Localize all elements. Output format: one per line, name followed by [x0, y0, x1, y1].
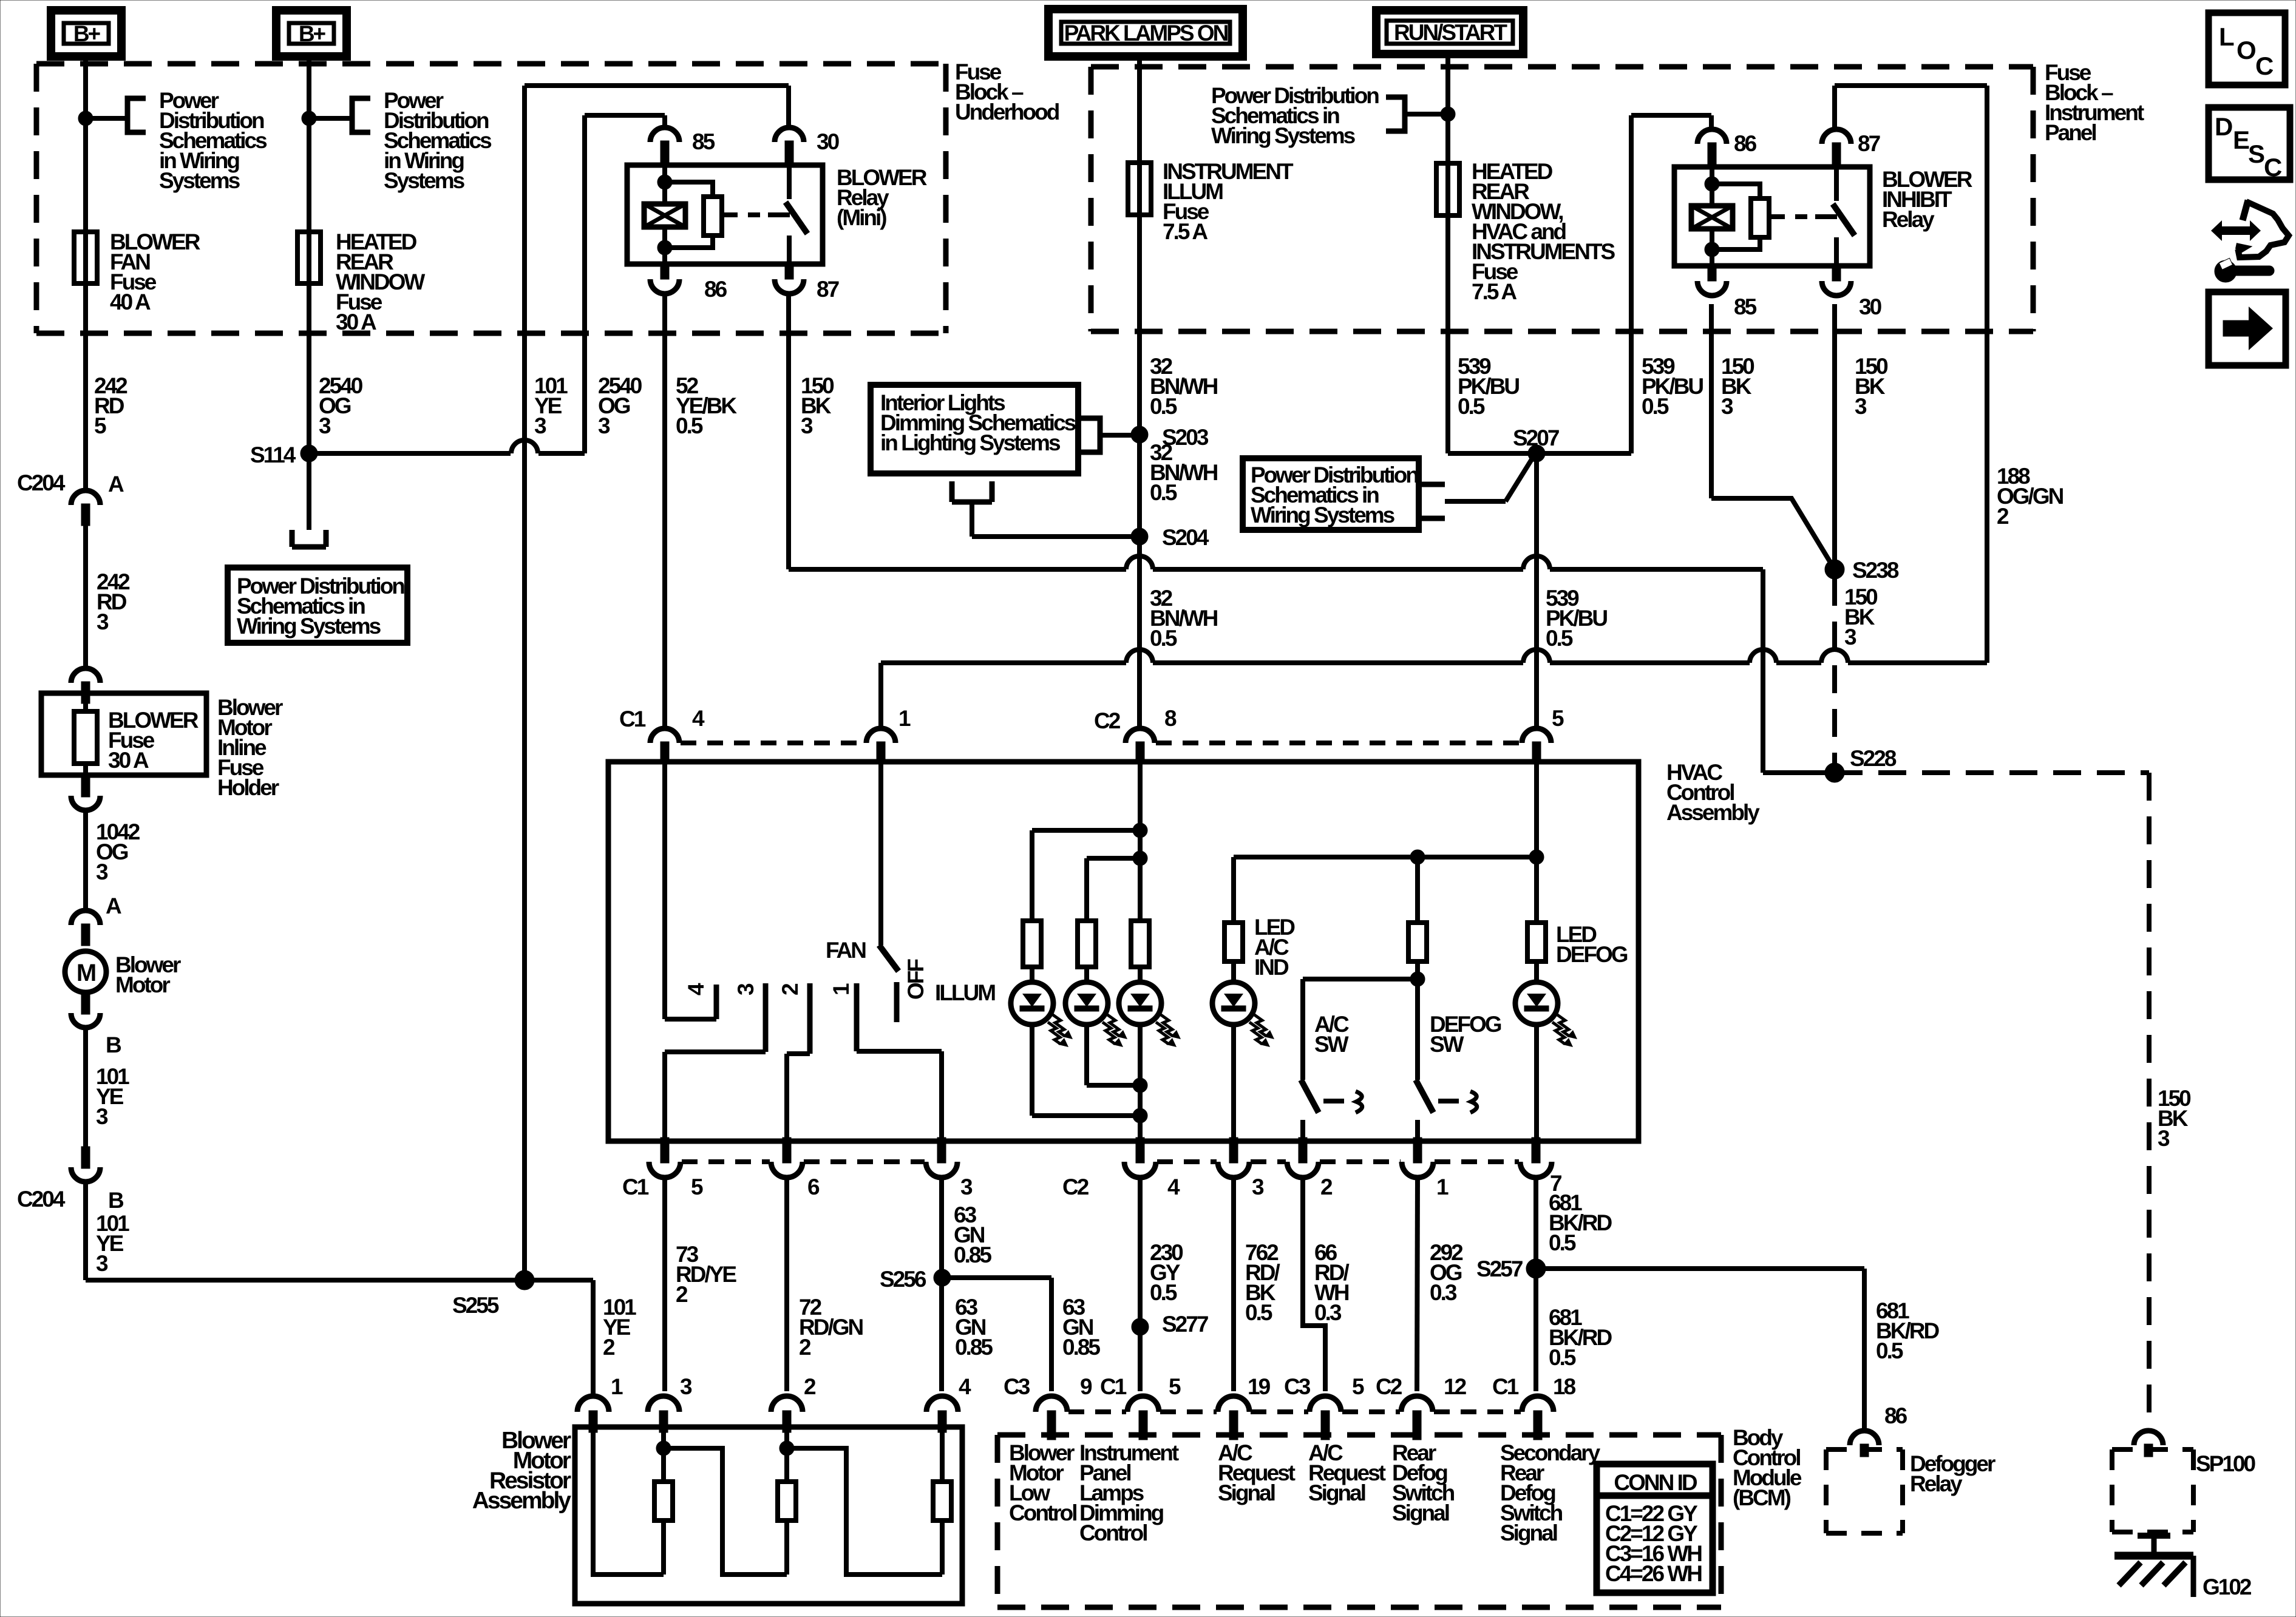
svg-text:0.5: 0.5	[1150, 394, 1177, 419]
svg-text:87: 87	[817, 277, 839, 302]
svg-text:3: 3	[1721, 394, 1733, 419]
svg-text:3: 3	[96, 859, 108, 884]
svg-text:0.5: 0.5	[1458, 394, 1485, 419]
svg-text:Motor: Motor	[115, 972, 170, 997]
svg-text:5: 5	[1352, 1374, 1364, 1399]
svg-text:30 A: 30 A	[108, 748, 149, 773]
svg-text:C1: C1	[1100, 1374, 1127, 1399]
svg-text:Control: Control	[1079, 1520, 1147, 1545]
svg-text:3: 3	[733, 983, 758, 995]
svg-text:1: 1	[829, 983, 854, 995]
svg-text:IND: IND	[1254, 955, 1289, 980]
svg-text:0.5: 0.5	[1150, 1280, 1177, 1305]
svg-text:FAN: FAN	[826, 938, 866, 963]
svg-text:86: 86	[704, 277, 727, 302]
svg-text:Assembly: Assembly	[472, 1488, 572, 1514]
svg-text:3: 3	[598, 413, 610, 438]
svg-text:0.5: 0.5	[1549, 1345, 1576, 1370]
svg-text:0.5: 0.5	[1549, 1230, 1576, 1255]
svg-text:C204: C204	[17, 470, 66, 495]
svg-text:A: A	[106, 893, 121, 918]
svg-text:OFF: OFF	[903, 959, 928, 1000]
svg-text:0.5: 0.5	[1546, 626, 1573, 651]
svg-text:SW: SW	[1314, 1032, 1349, 1057]
svg-text:19: 19	[1248, 1374, 1271, 1399]
svg-text:G102: G102	[2203, 1575, 2252, 1599]
svg-text:3: 3	[2158, 1126, 2170, 1151]
svg-text:M: M	[76, 960, 95, 986]
svg-text:87: 87	[1858, 131, 1880, 156]
svg-text:Signal: Signal	[1308, 1480, 1365, 1505]
svg-text:2: 2	[1320, 1175, 1333, 1199]
svg-text:0.5: 0.5	[676, 413, 703, 438]
svg-text:C1: C1	[619, 707, 646, 731]
svg-text:3: 3	[534, 413, 546, 438]
svg-text:DEFOG: DEFOG	[1556, 942, 1628, 967]
svg-text:B+: B+	[299, 21, 326, 46]
svg-text:3: 3	[801, 413, 813, 438]
svg-text:0.85: 0.85	[954, 1242, 991, 1267]
svg-text:S255: S255	[452, 1293, 499, 1318]
svg-text:2: 2	[676, 1282, 688, 1307]
svg-text:0.5: 0.5	[1150, 626, 1177, 651]
svg-text:2: 2	[799, 1335, 811, 1360]
svg-text:Wiring Systems: Wiring Systems	[1251, 503, 1395, 527]
svg-text:3: 3	[960, 1175, 973, 1199]
svg-text:Underhood: Underhood	[955, 100, 1059, 124]
svg-text:C3: C3	[1004, 1374, 1030, 1399]
svg-text:C: C	[2255, 52, 2274, 80]
svg-text:E: E	[2233, 126, 2249, 154]
svg-text:30: 30	[817, 129, 840, 154]
svg-text:S256: S256	[880, 1267, 926, 1292]
svg-text:S: S	[2248, 140, 2264, 168]
svg-text:Relay: Relay	[1910, 1471, 1963, 1496]
svg-text:Panel: Panel	[2045, 120, 2096, 145]
svg-text:5: 5	[94, 413, 106, 438]
svg-text:C4=26 WH: C4=26 WH	[1605, 1561, 1702, 1586]
svg-text:C1: C1	[622, 1175, 649, 1199]
svg-text:3: 3	[97, 609, 109, 634]
svg-text:Signal: Signal	[1218, 1480, 1275, 1505]
svg-text:3: 3	[319, 413, 331, 438]
svg-text:18: 18	[1553, 1374, 1576, 1399]
svg-text:B+: B+	[73, 21, 101, 46]
svg-text:7.5 A: 7.5 A	[1472, 279, 1517, 304]
svg-text:0.5: 0.5	[1245, 1300, 1272, 1325]
svg-text:Wiring Systems: Wiring Systems	[237, 614, 381, 639]
svg-text:C: C	[2264, 153, 2282, 181]
svg-text:C204: C204	[17, 1187, 66, 1212]
svg-text:S238: S238	[1852, 558, 1899, 583]
svg-text:PARK LAMPS ON: PARK LAMPS ON	[1064, 21, 1228, 46]
svg-text:Relay: Relay	[1882, 207, 1935, 232]
svg-text:3: 3	[680, 1374, 692, 1399]
svg-text:30: 30	[1859, 294, 1882, 319]
svg-text:30 A: 30 A	[336, 310, 376, 334]
svg-text:0.3: 0.3	[1430, 1280, 1457, 1305]
svg-text:C1: C1	[1492, 1374, 1519, 1399]
svg-text:(Mini): (Mini)	[837, 205, 886, 230]
svg-text:S207: S207	[1513, 425, 1559, 450]
svg-text:0.85: 0.85	[955, 1335, 993, 1360]
svg-text:3: 3	[1855, 394, 1867, 419]
svg-text:86: 86	[1884, 1403, 1907, 1428]
svg-text:40 A: 40 A	[110, 290, 151, 314]
svg-text:8: 8	[1164, 706, 1177, 731]
svg-text:CONN ID: CONN ID	[1614, 1470, 1697, 1495]
svg-text:S257: S257	[1476, 1256, 1523, 1281]
svg-text:D: D	[2215, 112, 2232, 141]
svg-text:(BCM): (BCM)	[1733, 1485, 1791, 1510]
svg-text:3: 3	[1844, 625, 1856, 649]
svg-text:B: B	[106, 1032, 121, 1057]
svg-text:A: A	[108, 472, 124, 497]
svg-text:85: 85	[1734, 294, 1757, 319]
svg-text:S228: S228	[1850, 746, 1897, 771]
svg-text:Signal: Signal	[1392, 1500, 1449, 1525]
svg-text:B: B	[108, 1188, 124, 1213]
svg-text:2: 2	[804, 1374, 816, 1399]
svg-text:3: 3	[96, 1251, 108, 1276]
svg-text:85: 85	[692, 129, 715, 154]
svg-text:2: 2	[1997, 504, 2009, 529]
svg-text:L: L	[2219, 22, 2234, 51]
svg-text:SW: SW	[1430, 1032, 1464, 1057]
svg-text:S277: S277	[1162, 1312, 1208, 1337]
svg-text:0.5: 0.5	[1150, 480, 1177, 505]
svg-text:2: 2	[778, 983, 803, 995]
svg-text:5: 5	[691, 1175, 703, 1199]
svg-text:7.5 A: 7.5 A	[1163, 219, 1207, 244]
svg-text:6: 6	[807, 1175, 820, 1199]
svg-text:in Lighting Systems: in Lighting Systems	[880, 430, 1061, 455]
svg-text:Signal: Signal	[1500, 1520, 1557, 1545]
svg-text:1: 1	[1436, 1175, 1449, 1199]
svg-text:2: 2	[603, 1335, 615, 1360]
svg-text:C2: C2	[1062, 1175, 1089, 1199]
svg-text:5: 5	[1552, 706, 1564, 731]
svg-text:RUN/START: RUN/START	[1394, 20, 1507, 45]
svg-text:O: O	[2237, 36, 2255, 64]
svg-text:12: 12	[1444, 1374, 1467, 1399]
svg-text:3: 3	[1252, 1175, 1264, 1199]
svg-text:SP100: SP100	[2196, 1451, 2256, 1476]
svg-text:0.3: 0.3	[1314, 1300, 1342, 1325]
svg-text:1: 1	[611, 1374, 623, 1399]
svg-text:ILLUM: ILLUM	[935, 980, 995, 1005]
svg-text:0.85: 0.85	[1062, 1335, 1100, 1360]
svg-text:1: 1	[898, 706, 911, 731]
svg-text:0.5: 0.5	[1876, 1338, 1903, 1363]
svg-text:Systems: Systems	[159, 168, 240, 193]
svg-text:C3: C3	[1284, 1374, 1311, 1399]
svg-text:Assembly: Assembly	[1666, 800, 1760, 825]
svg-text:9: 9	[1080, 1374, 1092, 1399]
svg-text:Holder: Holder	[217, 775, 279, 800]
svg-text:86: 86	[1734, 131, 1757, 156]
svg-text:0.5: 0.5	[1642, 394, 1669, 419]
svg-text:C2: C2	[1376, 1374, 1402, 1399]
svg-text:S114: S114	[250, 442, 296, 467]
svg-text:3: 3	[96, 1104, 108, 1129]
svg-text:C2: C2	[1094, 708, 1121, 733]
svg-text:5: 5	[1169, 1374, 1181, 1399]
svg-text:S204: S204	[1162, 525, 1209, 550]
svg-text:Control: Control	[1009, 1500, 1076, 1525]
svg-text:Wiring Systems: Wiring Systems	[1211, 123, 1356, 148]
svg-text:Systems: Systems	[384, 168, 465, 193]
